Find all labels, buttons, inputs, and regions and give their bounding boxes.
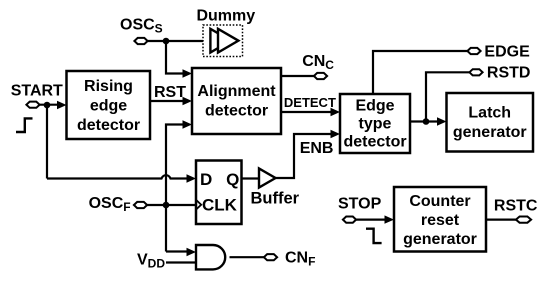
dummy buffer: dashed box bbox=[203, 25, 243, 57]
wire: CN_C from alignment detector bbox=[281, 75, 314, 77]
pad: START bbox=[26, 102, 39, 108]
dummy buffer: back triangle bbox=[210, 29, 230, 53]
svg-text:RSTD: RSTD bbox=[487, 65, 531, 82]
wire: Q output to buffer bbox=[242, 177, 260, 179]
svg-text:STOP: STOP bbox=[338, 196, 382, 213]
wire: AND gate output to CN_F pad bbox=[230, 256, 265, 258]
svg-text:ENB: ENB bbox=[300, 140, 334, 157]
svg-text:Latch: Latch bbox=[468, 104, 511, 121]
block: rising edge detector bbox=[67, 71, 151, 139]
svg-text:DETECT: DETECT bbox=[284, 95, 336, 110]
svg-text:START: START bbox=[11, 83, 63, 100]
svg-text:Rising: Rising bbox=[84, 78, 133, 95]
wire: VDD to AND gate bottom input bbox=[166, 261, 196, 263]
pad: OSC_S bbox=[134, 38, 147, 44]
block: latch generator bbox=[447, 93, 534, 152]
waveform: falling step at STOP bbox=[366, 229, 382, 243]
wire: ENB from buffer to edge type detector bbox=[276, 130, 341, 178]
wire: DETECT from alignment detector to edge type detector bbox=[281, 108, 340, 116]
node: RSTD junction bbox=[423, 118, 430, 125]
wire: START pad to rising edge detector bbox=[40, 101, 67, 109]
pad: STOP bbox=[343, 217, 356, 223]
svg-text:detector: detector bbox=[205, 103, 268, 120]
block: alignment detector bbox=[192, 68, 281, 134]
wire: to AND gate top input bbox=[166, 248, 196, 256]
buffer U2: triangle bbox=[251, 169, 300, 208]
wire: START down and across to D input (with hop over vertical) bbox=[47, 105, 196, 183]
svg-text:Dummy: Dummy bbox=[196, 8, 255, 25]
wire: OSC_F vertical up to alignment detector input 3 bbox=[166, 120, 192, 251]
wire: EDGE from edge type detector top bbox=[373, 51, 467, 94]
svg-text:Edge: Edge bbox=[355, 97, 394, 114]
pad: RSTC bbox=[516, 217, 531, 223]
svg-text:D: D bbox=[200, 170, 212, 189]
node: START junction bbox=[44, 102, 51, 109]
block: edge type detector bbox=[340, 94, 410, 153]
wire: RSTD branch up bbox=[426, 72, 469, 121]
svg-text:detector: detector bbox=[77, 117, 140, 134]
AND gate bbox=[196, 245, 225, 269]
pad: EDGE bbox=[467, 48, 480, 54]
svg-text:EDGE: EDGE bbox=[484, 44, 530, 61]
svg-text:reset: reset bbox=[421, 212, 460, 229]
waveform: rising step at START bbox=[16, 118, 33, 132]
block: counter reset generator bbox=[394, 187, 486, 252]
pad: CN_C bbox=[314, 73, 327, 79]
wire: OSC_S pad to dummy buffer bbox=[148, 40, 211, 42]
wire: STOP pad to counter reset generator bbox=[356, 215, 394, 223]
svg-text:edge: edge bbox=[90, 98, 127, 115]
svg-text:Buffer: Buffer bbox=[251, 190, 300, 208]
wire: OSC_F pad to CLK input bbox=[147, 204, 195, 206]
svg-text:type: type bbox=[359, 115, 392, 132]
flip-flop U1: D flip-flop with CLK bbox=[196, 161, 242, 225]
wire: edge type detector to latch generator bbox=[410, 117, 447, 125]
svg-text:Q: Q bbox=[226, 170, 239, 189]
node: OSC_S junction bbox=[163, 38, 170, 45]
svg-text:RSTC: RSTC bbox=[494, 197, 538, 214]
pad: RSTD bbox=[469, 69, 482, 75]
svg-text:generator: generator bbox=[453, 124, 527, 141]
pad: CN_F bbox=[264, 254, 277, 260]
wire: RST from rising edge detector to alignment detector bbox=[150, 97, 192, 105]
svg-text:Counter: Counter bbox=[409, 193, 470, 210]
wire: OSC_S down to alignment detector input 1 bbox=[166, 41, 192, 78]
svg-text:CLK: CLK bbox=[202, 195, 238, 214]
svg-text:RST: RST bbox=[154, 84, 186, 101]
svg-text:generator: generator bbox=[403, 231, 477, 248]
svg-text:Alignment: Alignment bbox=[197, 83, 276, 100]
pad: OSC_F bbox=[134, 202, 147, 208]
node: OSC_F junction bbox=[163, 202, 170, 209]
svg-text:detector: detector bbox=[343, 133, 406, 150]
wire: RSTC from counter reset generator bbox=[486, 219, 517, 221]
dummy buffer: front triangle bbox=[218, 29, 238, 53]
